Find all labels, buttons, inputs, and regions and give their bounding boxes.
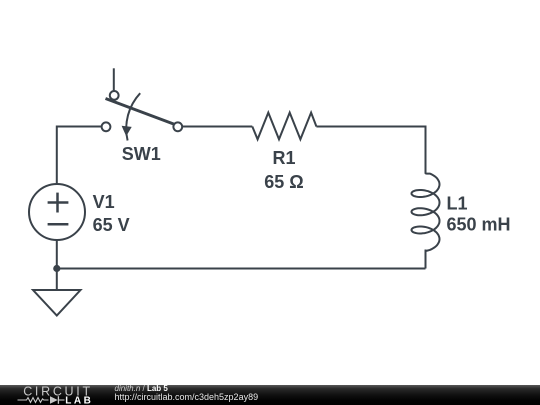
label V1 value (93, 192, 130, 235)
wire: SW1 right terminal to resistor R1 (182, 126, 252, 128)
node: bottom-left junction (53, 265, 60, 272)
label SW1 (122, 144, 161, 164)
ground (33, 269, 81, 316)
footer text: title and url (115, 385, 168, 393)
wire: bottom horizontal (57, 268, 426, 270)
voltage source V1 (29, 184, 85, 240)
svg-text:L1: L1 (447, 194, 468, 214)
svg-text:R1: R1 (272, 148, 295, 168)
wire: resistor to top-right corner down to L1 (316, 127, 425, 172)
switch SW1 (102, 91, 183, 141)
wire: top-left horizontal from V1 corner to SW1 left terminal (57, 127, 102, 185)
svg-text:65 Ω: 65 Ω (264, 172, 303, 192)
wire: stub above switch top terminal (113, 68, 115, 90)
svg-text:V1: V1 (93, 192, 115, 212)
label R1 value (264, 148, 303, 192)
wire: V1 bottom to junction (56, 240, 58, 269)
wire: L1 bottom to bottom-right corner (425, 250, 427, 269)
inductor L1 (412, 127, 440, 269)
svg-text:LAB: LAB (65, 395, 93, 405)
svg-text:650 mH: 650 mH (447, 215, 511, 235)
resistor R1 (252, 113, 316, 140)
svg-text:65 V: 65 V (93, 215, 130, 235)
label L1 value (447, 194, 511, 235)
svg-text:SW1: SW1 (122, 144, 161, 164)
CircuitLab logo (0, 385, 110, 405)
footer bar (0, 385, 540, 405)
